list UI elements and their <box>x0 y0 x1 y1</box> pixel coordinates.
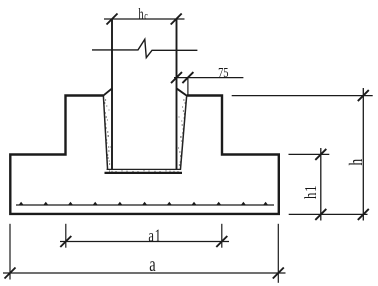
svg-text:c: c <box>144 10 148 23</box>
svg-text:h1: h1 <box>302 185 320 199</box>
stipple dots <box>104 99 185 172</box>
grout mound left <box>103 88 112 96</box>
grout mound right <box>176 88 187 96</box>
break line <box>92 39 197 57</box>
dimension h1 <box>289 148 330 221</box>
mortar bed <box>107 168 181 170</box>
dimension a1 <box>60 224 229 248</box>
svg-text:h: h <box>138 5 143 23</box>
svg-text:h: h <box>345 159 367 166</box>
svg-text:75: 75 <box>218 65 228 81</box>
column <box>111 19 113 170</box>
rebar line <box>16 204 274 206</box>
dimension h <box>232 88 373 221</box>
foundation outline <box>10 96 279 214</box>
dimension 75 <box>171 72 243 95</box>
socket wall right <box>180 97 186 171</box>
rebar ticks <box>18 202 268 205</box>
svg-text:a1: a1 <box>148 227 161 247</box>
socket wall left <box>103 96 107 170</box>
dimension a <box>3 224 286 283</box>
svg-text:a: a <box>149 253 156 276</box>
dimension hc <box>104 14 185 25</box>
